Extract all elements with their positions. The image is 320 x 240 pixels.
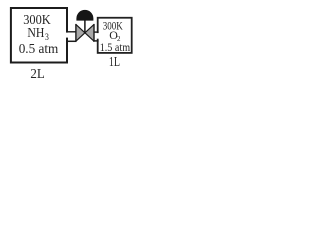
svg-text:0.5 atm: 0.5 atm (19, 42, 59, 57)
pipe left bottom wall (67, 40, 77, 42)
svg-text:1.5 atm: 1.5 atm (100, 40, 131, 54)
valve actuator dome (76, 10, 93, 21)
pipe right top wall (94, 31, 99, 33)
svg-text:NH: NH (27, 26, 44, 41)
valve bowtie left wedge (76, 24, 85, 41)
left flask port (opening in right wall) (65, 33, 70, 38)
svg-text:2L: 2L (30, 67, 44, 82)
valve bowtie diagonal 2 (76, 24, 94, 41)
valve bowtie right wedge (85, 24, 94, 41)
valve bowtie left base (75, 24, 77, 42)
pipe right bottom wall (93, 40, 99, 42)
valve stem (84, 20, 86, 33)
svg-text:1L: 1L (109, 54, 120, 69)
valve bowtie diagonal 1 (76, 24, 94, 41)
valve bowtie right base (93, 24, 95, 42)
right flask port (opening in left wall) (96, 33, 100, 39)
left flask (2L container) (11, 8, 67, 63)
right flask (1L container) (98, 18, 132, 53)
pipe left top wall (67, 31, 77, 33)
